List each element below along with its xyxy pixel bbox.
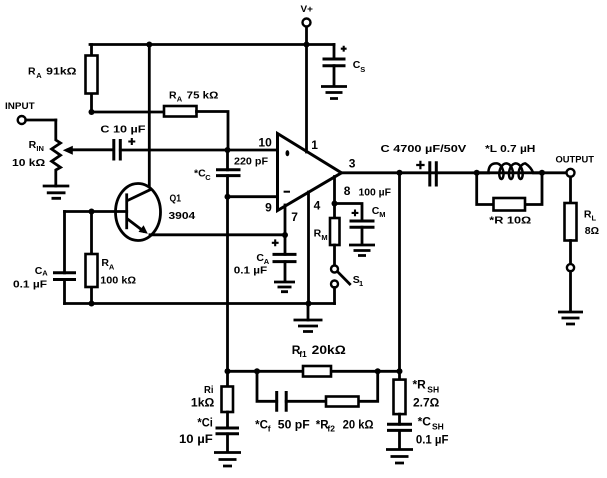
wire emitter to pin7 bbox=[150, 233, 285, 236]
svg-text:10 µF: 10 µF bbox=[179, 432, 213, 446]
capacitor CSH 0.1uF bbox=[387, 424, 412, 449]
label RSH bbox=[413, 378, 440, 395]
svg-text:C 10 µF: C 10 µF bbox=[100, 123, 146, 135]
terminal V+ bbox=[303, 19, 311, 45]
svg-text:10: 10 bbox=[258, 135, 272, 149]
svg-text:*R 10Ω: *R 10Ω bbox=[489, 215, 531, 227]
node base node bbox=[89, 209, 95, 215]
svg-text:f1: f1 bbox=[299, 349, 307, 359]
svg-text:100 µF: 100 µF bbox=[359, 186, 392, 198]
resistor RA 100k bbox=[86, 212, 98, 304]
node pin10 node bbox=[225, 147, 231, 153]
resistor RM bbox=[330, 204, 340, 266]
node pin4-ground junction bbox=[306, 301, 312, 307]
resistor RA 75k bbox=[164, 106, 228, 150]
resistor RA 91k bbox=[86, 45, 98, 113]
capacitor CC 220pF bbox=[216, 150, 241, 197]
svg-text:A: A bbox=[42, 269, 48, 278]
svg-text:SH: SH bbox=[432, 422, 444, 432]
terminal INPUT bbox=[18, 116, 26, 124]
switch S1 bbox=[331, 266, 350, 304]
capacitor CA 0.1uF at pin7 bbox=[273, 235, 297, 282]
pin 8 wire bbox=[333, 177, 336, 204]
svg-text:50 pF: 50 pF bbox=[278, 419, 310, 431]
terminal RL bottom bbox=[567, 264, 574, 271]
svg-text:C: C bbox=[205, 173, 211, 182]
label CS bbox=[353, 59, 366, 74]
pin 4 wire bbox=[307, 192, 310, 304]
node inductor right junction bbox=[539, 170, 545, 176]
ground below Ci bbox=[214, 453, 241, 467]
node output-feedback junction bbox=[397, 170, 403, 176]
label S1 bbox=[353, 274, 363, 288]
label CA bbox=[256, 252, 269, 266]
svg-text:1: 1 bbox=[359, 279, 363, 288]
node fb rf2 tap bbox=[375, 368, 381, 374]
svg-text:Ri: Ri bbox=[204, 384, 214, 396]
label RM bbox=[314, 228, 328, 242]
resistor R 10 parallel bbox=[477, 173, 542, 211]
label CC bbox=[194, 168, 211, 182]
ground below RL bbox=[558, 312, 583, 324]
capacitor CA left 0.1uF bbox=[53, 212, 76, 304]
svg-text:V+: V+ bbox=[301, 4, 314, 15]
wire bottom-left rail bbox=[65, 302, 335, 305]
svg-text:220 pF: 220 pF bbox=[234, 155, 269, 167]
transistor Q1 bbox=[116, 45, 161, 241]
capacitor CM 100uF bbox=[350, 221, 375, 245]
ground below CSH bbox=[386, 450, 413, 464]
wire pin9 bbox=[228, 195, 278, 198]
op-amp U1 bbox=[278, 134, 342, 211]
label RIN bbox=[29, 139, 44, 153]
label Rf2 bbox=[316, 419, 374, 433]
svg-text:91kΩ: 91kΩ bbox=[46, 66, 76, 78]
svg-text:0.1 µF: 0.1 µF bbox=[416, 432, 449, 446]
plus C4700 bbox=[416, 161, 424, 169]
svg-text:A: A bbox=[36, 71, 42, 80]
svg-text:7: 7 bbox=[291, 210, 298, 224]
svg-text:M: M bbox=[379, 210, 385, 219]
svg-text:10 kΩ: 10 kΩ bbox=[12, 157, 45, 169]
node bias node bbox=[89, 109, 95, 115]
svg-text:R: R bbox=[169, 89, 177, 101]
svg-text:20kΩ: 20kΩ bbox=[312, 343, 347, 357]
svg-text:0.1 µF: 0.1 µF bbox=[13, 279, 48, 291]
resistor Ri 1k bbox=[222, 371, 234, 428]
node rail-V+ junction bbox=[304, 42, 310, 48]
node inductor left junction bbox=[474, 170, 480, 176]
potentiometer RIN 10k bbox=[52, 120, 61, 186]
ground below CM bbox=[349, 245, 375, 256]
plus CS bbox=[341, 46, 347, 52]
wire V+ top rail bbox=[90, 43, 334, 46]
svg-text:*C: *C bbox=[255, 420, 268, 432]
plus C10uF bbox=[128, 138, 135, 145]
wiper arrow bbox=[63, 146, 113, 155]
svg-text:M: M bbox=[321, 233, 327, 242]
svg-text:2.7Ω: 2.7Ω bbox=[413, 395, 440, 409]
wire op-amp output rail bbox=[342, 171, 567, 174]
label RA 100k bbox=[101, 257, 115, 271]
svg-text:A: A bbox=[177, 95, 183, 104]
ground main bbox=[294, 304, 323, 332]
node fb left bbox=[225, 368, 231, 374]
label RA 75k bbox=[169, 89, 218, 103]
svg-text:*C: *C bbox=[194, 168, 206, 180]
svg-text:8Ω: 8Ω bbox=[585, 225, 599, 237]
svg-text:SH: SH bbox=[427, 384, 439, 394]
svg-text:*Ci: *Ci bbox=[197, 417, 212, 429]
svg-text:L: L bbox=[592, 214, 597, 223]
label CSH bbox=[418, 415, 444, 432]
resistor RSH 2.7 bbox=[394, 371, 406, 424]
svg-text:*R: *R bbox=[413, 378, 427, 392]
svg-text:0.1 µF: 0.1 µF bbox=[234, 265, 268, 277]
svg-text:1kΩ: 1kΩ bbox=[191, 396, 215, 410]
svg-text:9: 9 bbox=[265, 201, 272, 215]
svg-text:f2: f2 bbox=[327, 424, 335, 434]
label RL bbox=[584, 208, 597, 222]
capacitor Ci 10uF bbox=[216, 428, 240, 452]
label Rf1 bbox=[292, 343, 347, 359]
svg-text:C 4700 µF/50V: C 4700 µF/50V bbox=[381, 143, 467, 155]
wire pin8 to CM bbox=[335, 204, 363, 222]
wire output to feedback bbox=[398, 173, 401, 371]
resistor Rf1 20k bbox=[303, 366, 331, 377]
wire input to pot bbox=[26, 119, 56, 122]
svg-text:4: 4 bbox=[314, 199, 321, 213]
label RA 91k bbox=[28, 66, 77, 81]
svg-text:3904: 3904 bbox=[169, 210, 196, 222]
svg-text:Q1: Q1 bbox=[170, 193, 182, 205]
terminal OUTPUT bbox=[567, 169, 575, 177]
node pin9 node bbox=[225, 194, 231, 200]
wire inverting feedback line bbox=[226, 197, 229, 372]
plus CA bbox=[272, 239, 279, 246]
inductor L 0.7uH bbox=[480, 163, 539, 179]
svg-text:R: R bbox=[29, 139, 37, 151]
plus CM bbox=[352, 210, 359, 217]
node fb right bbox=[397, 368, 403, 374]
node fb cf tap bbox=[254, 368, 260, 374]
wire feedback row bbox=[228, 370, 400, 373]
svg-text:*C: *C bbox=[418, 415, 432, 429]
resistor Rf2 20k bbox=[326, 397, 359, 407]
svg-text:A: A bbox=[109, 262, 115, 271]
label CM bbox=[372, 205, 386, 219]
svg-text:*L 0.7 µH: *L 0.7 µH bbox=[485, 143, 535, 155]
wire RL to ground bbox=[569, 271, 572, 311]
svg-text:OUTPUT: OUTPUT bbox=[556, 155, 595, 166]
label CA left bbox=[35, 265, 48, 278]
svg-text:8: 8 bbox=[344, 184, 351, 198]
svg-text:3: 3 bbox=[349, 157, 356, 171]
svg-text:IN: IN bbox=[36, 144, 44, 153]
wire bias to R75k bbox=[92, 111, 165, 114]
pin 7 wire bbox=[284, 205, 287, 235]
node rail-collector junction bbox=[146, 42, 152, 48]
node pin7 node bbox=[282, 232, 288, 238]
node pin8 node bbox=[332, 201, 338, 207]
svg-text:f: f bbox=[268, 424, 271, 434]
svg-text:20 kΩ: 20 kΩ bbox=[343, 419, 374, 431]
node bottom-left junction bbox=[89, 301, 95, 307]
wire pin10 bbox=[228, 149, 278, 152]
capacitor C 10uF bbox=[114, 139, 228, 161]
pin 1 wire bbox=[305, 45, 308, 153]
ground below CS bbox=[321, 87, 347, 99]
capacitor CS bbox=[323, 45, 346, 87]
svg-text:100 kΩ: 100 kΩ bbox=[100, 275, 136, 287]
capacitor Cf 50pF bbox=[277, 391, 287, 412]
label Cf bbox=[255, 419, 310, 433]
svg-text:S: S bbox=[360, 65, 365, 74]
svg-text:INPUT: INPUT bbox=[5, 101, 35, 112]
wire base bbox=[65, 210, 127, 213]
resistor RL 8ohm bbox=[565, 177, 577, 264]
svg-text:1: 1 bbox=[311, 138, 318, 152]
svg-text:R: R bbox=[28, 66, 36, 78]
ground below pot bbox=[43, 186, 70, 198]
svg-text:R: R bbox=[314, 228, 322, 240]
capacitor C 4700uF bbox=[430, 161, 437, 186]
ground below CA bbox=[274, 282, 295, 292]
svg-text:75 kΩ: 75 kΩ bbox=[187, 89, 219, 101]
wire cf branch bbox=[257, 371, 378, 401]
